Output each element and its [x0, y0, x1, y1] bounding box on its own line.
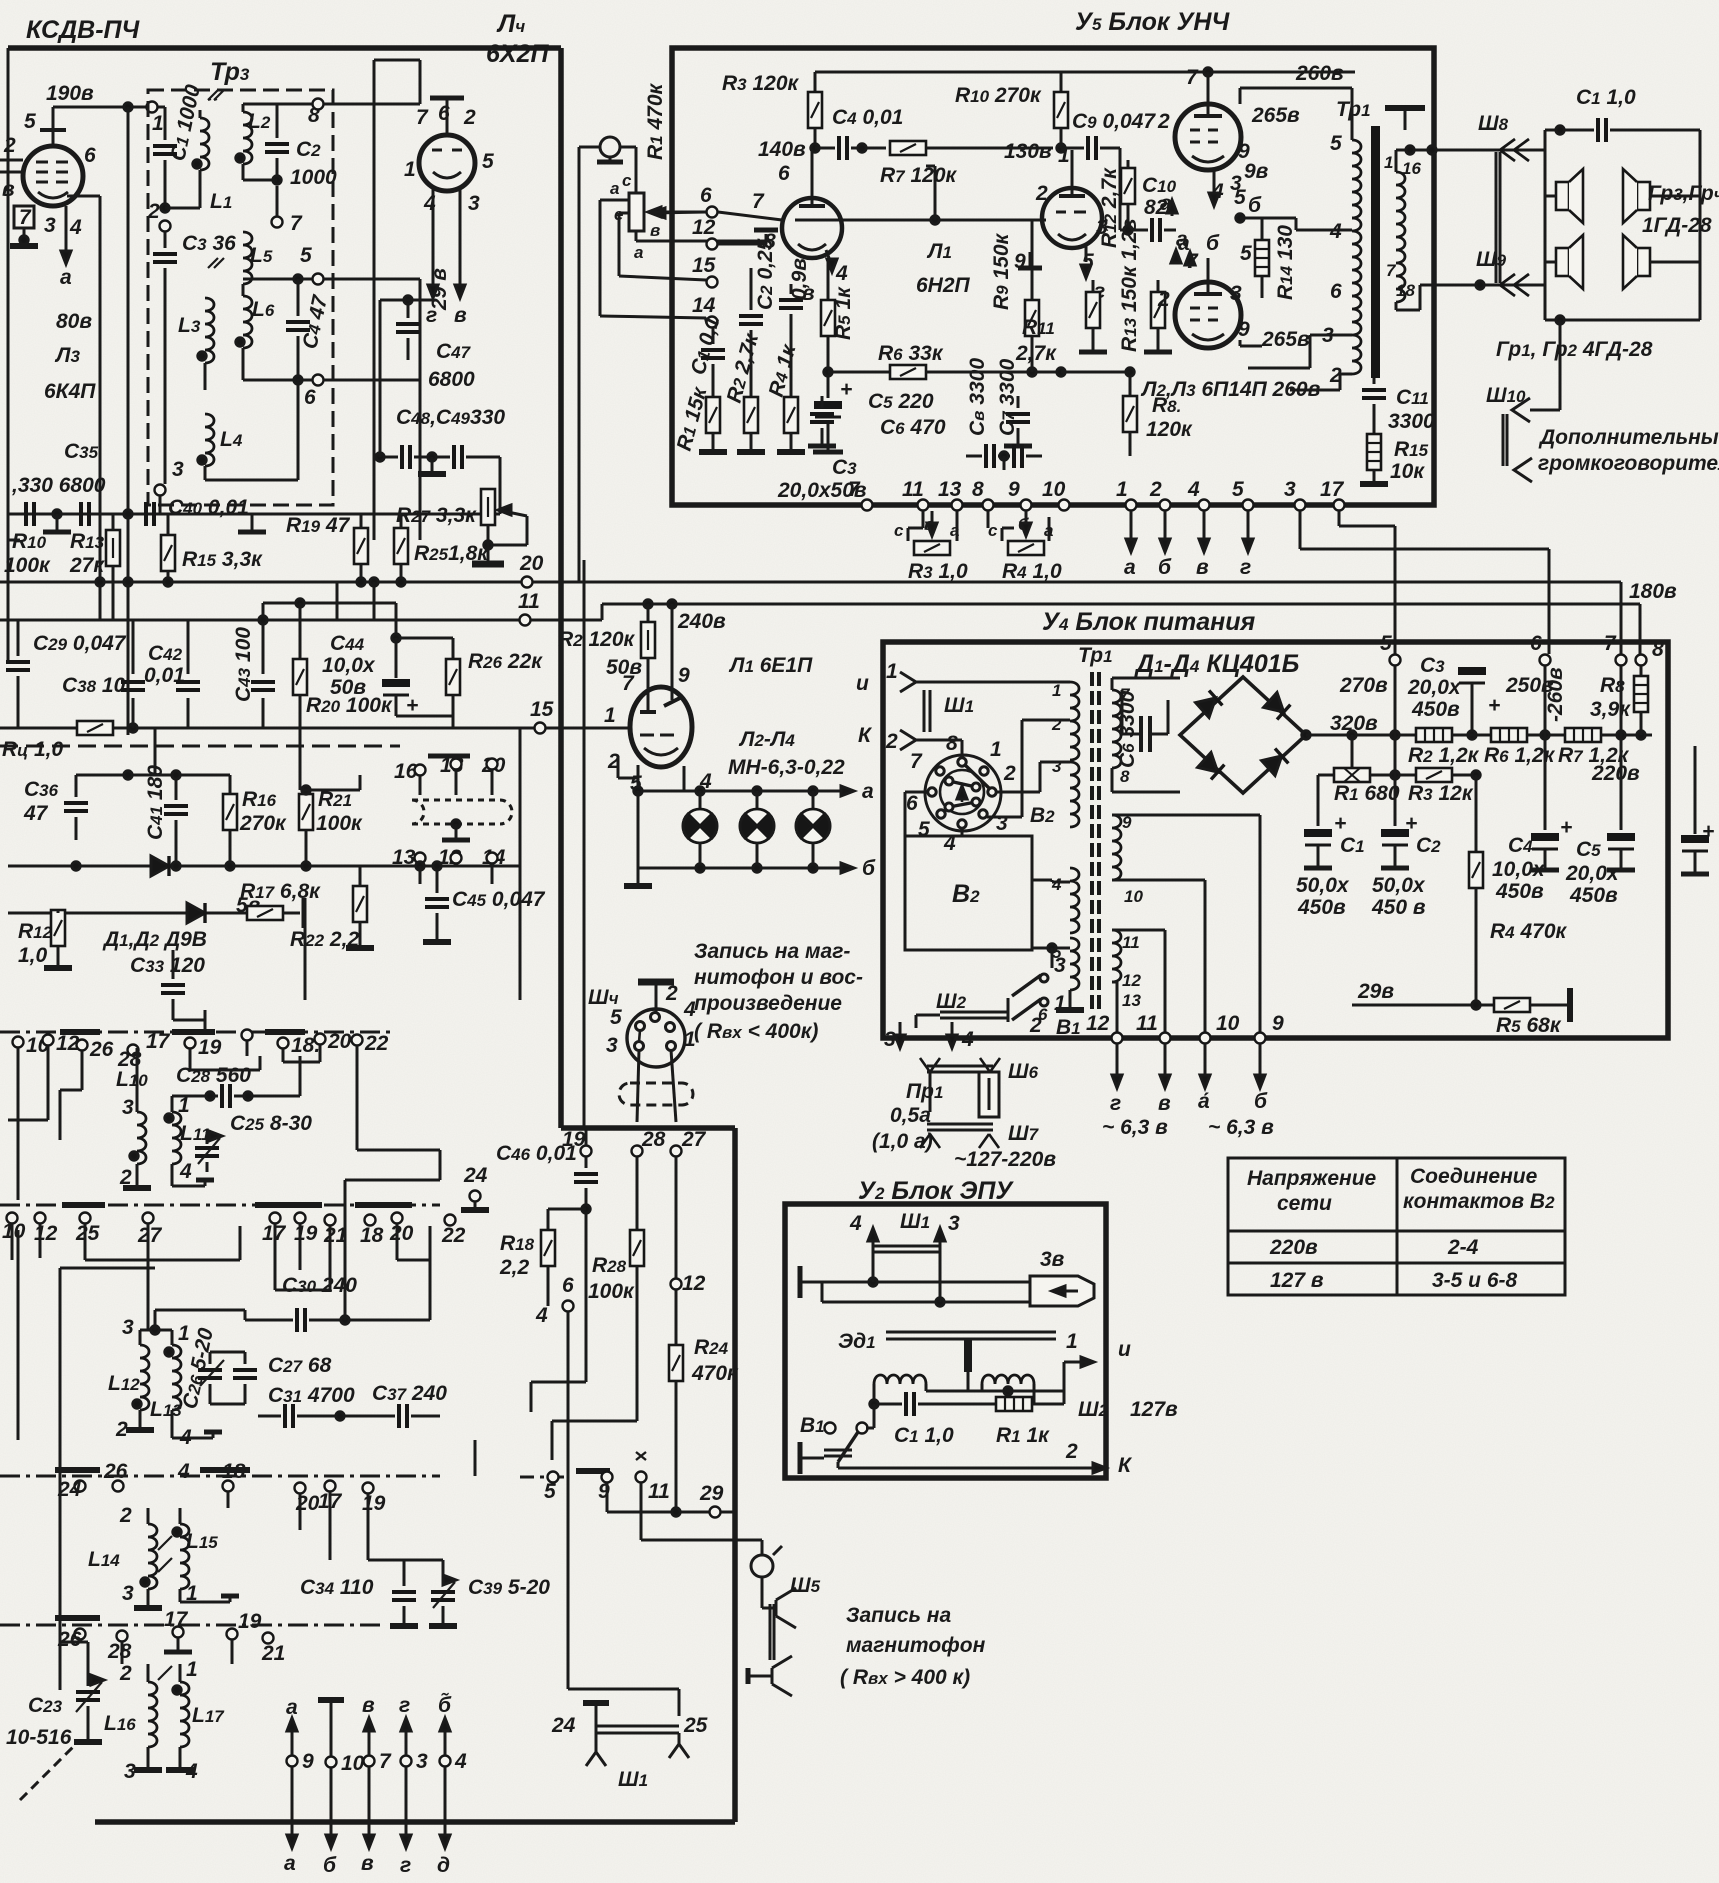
svg-text:+: +: [1334, 812, 1346, 835]
svg-text:R15: R15: [1394, 438, 1429, 461]
lamp 2: [756, 791, 759, 809]
svg-text:15: 15: [530, 698, 554, 721]
svg-text:1: 1: [1052, 681, 1061, 700]
svg-text:R13: R13: [70, 530, 105, 553]
svg-text:6: 6: [906, 792, 918, 815]
svg-text:R4 470к: R4 470к: [1490, 920, 1568, 943]
box У2: [785, 1204, 1106, 1478]
svg-text:( Rвх < 400к): ( Rвх < 400к): [694, 1020, 818, 1043]
lamp 3: [812, 791, 815, 809]
svg-text:С11: С11: [1396, 386, 1429, 409]
wire node 17 to node 5 of У4: [1338, 511, 1341, 526]
svg-text:5: 5: [1240, 242, 1252, 265]
svg-text:180в: 180в: [1629, 580, 1677, 603]
diode Д4: [1262, 749, 1289, 776]
wire 29 junction row: [606, 1483, 609, 1512]
svg-text:С34 110: С34 110: [300, 1576, 374, 1599]
contacts row 1: [13, 1037, 24, 1048]
diode Д2: [1264, 693, 1291, 720]
svg-text:265в: 265в: [1261, 328, 1310, 351]
svg-text:7: 7: [290, 212, 303, 235]
svg-text:20,0х: 20,0х: [1407, 676, 1462, 699]
long verticals in IF block: [127, 582, 130, 735]
svg-text:3: 3: [416, 1750, 428, 1773]
svg-text:5: 5: [482, 150, 494, 173]
svg-text:С29 0,047: С29 0,047: [33, 632, 127, 655]
dashed pointer to C23: [20, 1740, 80, 1800]
svg-text:а: а: [1124, 556, 1136, 579]
svg-text:50,0х: 50,0х: [1372, 874, 1426, 897]
svg-text:R1 680: R1 680: [1334, 782, 1400, 805]
svg-text:25: 25: [75, 1222, 100, 1245]
node 7: [1616, 655, 1627, 666]
svg-text:11: 11: [648, 1480, 670, 1503]
svg-text:2: 2: [885, 730, 898, 753]
svg-text:7: 7: [19, 206, 32, 229]
svg-text:R3 12к: R3 12к: [1408, 782, 1474, 805]
svg-text:15: 15: [692, 254, 716, 277]
svg-text:в: в: [362, 1694, 375, 1717]
svg-text:7: 7: [1186, 66, 1199, 89]
svg-text:100к: 100к: [588, 1280, 635, 1303]
г в а б arrows below У4: [1116, 1044, 1119, 1076]
svg-text:С6 3300: С6 3300: [1116, 690, 1139, 768]
svg-text:R1 470к: R1 470к: [644, 82, 667, 160]
svg-text:2: 2: [1035, 182, 1048, 205]
svg-text:5: 5: [1234, 186, 1246, 209]
svg-text:б: б: [1158, 556, 1172, 579]
svg-text:1: 1: [990, 738, 1002, 761]
svg-text:5: 5: [1052, 943, 1062, 962]
node 11: [520, 615, 531, 626]
svg-text:8: 8: [1120, 767, 1130, 786]
svg-text:а: а: [284, 1852, 296, 1875]
wafer row 5 dashed: [520, 1476, 568, 1479]
wire plate to Тр3: [52, 107, 55, 118]
node 130в: [1057, 144, 1065, 152]
svg-text:R10 270к: R10 270к: [955, 84, 1042, 107]
svg-text:5: 5: [610, 1006, 622, 1029]
svg-text:+: +: [1488, 694, 1500, 717]
svg-text:470к: 470к: [691, 1362, 739, 1385]
svg-text:5: 5: [544, 1480, 556, 1503]
svg-text:3300: 3300: [1388, 410, 1435, 433]
svg-text:а: а: [862, 780, 874, 803]
svg-text:С5: С5: [1576, 838, 1601, 861]
svg-text:1ГД-28: 1ГД-28: [1642, 214, 1712, 237]
resistor R15 10к: [1373, 404, 1376, 434]
resistor R5 68к: [1494, 998, 1530, 1012]
svg-text:б: б: [1254, 1090, 1268, 1113]
svg-text:3: 3: [172, 458, 184, 481]
svg-text:б: б: [323, 1854, 337, 1877]
svg-text:Ш5: Ш5: [790, 1574, 821, 1597]
wire speaker bus bottom: [1545, 319, 1700, 322]
svg-text:4: 4: [961, 1028, 974, 1051]
svg-text:+: +: [1702, 820, 1714, 843]
svg-text:Запись на маг-: Запись на маг-: [694, 940, 850, 963]
svg-text:7: 7: [416, 106, 429, 129]
svg-text:3: 3: [996, 812, 1008, 835]
svg-text:17: 17: [146, 1030, 171, 1053]
box У4: [883, 642, 1668, 1038]
coil L1: [200, 118, 209, 170]
coil L4: [205, 414, 214, 466]
svg-text:2,2: 2,2: [499, 1256, 530, 1279]
jack Ш5: [640, 1512, 643, 1540]
svg-text:2: 2: [463, 106, 476, 129]
svg-text:7: 7: [1604, 632, 1617, 655]
svg-text:б: б: [862, 857, 876, 880]
svg-text:5: 5: [1330, 132, 1342, 155]
svg-text:С36: С36: [24, 778, 59, 801]
svg-text:2: 2: [1157, 288, 1170, 311]
svg-text:3в: 3в: [1040, 1248, 1065, 1271]
node: [858, 144, 866, 152]
ground left: [798, 1266, 803, 1298]
switch B1 mains on-off: [1051, 948, 1054, 968]
svg-text:нитофон и вос-: нитофон и вос-: [694, 966, 863, 989]
capacitor C11 3300: [1373, 378, 1376, 384]
svg-text:~127-220в: ~127-220в: [954, 1148, 1056, 1171]
wafer row 3 dashed: [0, 1475, 440, 1478]
svg-text:2: 2: [1149, 478, 1162, 501]
svg-text:R4 1,0: R4 1,0: [1002, 560, 1062, 583]
svg-text:У4 Блок питания: У4 Блок питания: [1042, 608, 1256, 636]
svg-text:6: 6: [304, 386, 316, 409]
svg-text:С3 36: С3 36: [182, 232, 236, 255]
svg-text:6: 6: [1038, 1005, 1048, 1024]
svg-text:100к: 100к: [316, 812, 363, 835]
wire speaker bus left: [1544, 130, 1547, 320]
resistor R2 1,2к: [1416, 728, 1452, 742]
svg-text:19: 19: [362, 1492, 386, 1515]
svg-text:3,9к: 3,9к: [1590, 698, 1631, 721]
svg-text:7: 7: [1386, 261, 1397, 280]
svg-text:50в: 50в: [330, 676, 366, 699]
node: [1236, 214, 1244, 222]
contacts row 4: [55, 1615, 100, 1621]
node 5 270в: [1390, 655, 1401, 666]
wire to node 8 of У4: [1639, 604, 1642, 654]
svg-text:а: а: [60, 266, 72, 289]
svg-text:3: 3: [1322, 324, 1334, 347]
svg-text:10: 10: [341, 1752, 365, 1775]
svg-text:Напряжение: Напряжение: [1247, 1167, 1377, 1190]
svg-text:б: б: [1248, 194, 1262, 217]
svg-text:С27 68: С27 68: [268, 1354, 332, 1377]
svg-text:в: в: [1196, 556, 1209, 579]
svg-text:1: 1: [178, 1322, 190, 1345]
svg-text:1: 1: [1116, 478, 1128, 501]
svg-text:С9 0,047: С9 0,047: [1072, 110, 1156, 133]
svg-text:Ш1: Ш1: [900, 1210, 930, 1233]
svg-text:С46 0,01: С46 0,01: [496, 1142, 577, 1165]
svg-text:9: 9: [1008, 478, 1020, 501]
svg-text:Ш1: Ш1: [618, 1768, 648, 1791]
svg-text:1: 1: [604, 704, 616, 727]
svg-text:4: 4: [1187, 478, 1200, 501]
svg-text:2: 2: [1003, 762, 1016, 785]
svg-text:2,7к: 2,7к: [1015, 342, 1057, 365]
svg-text:1: 1: [1384, 153, 1393, 172]
svg-text:Дополнительный: Дополнительный: [1538, 426, 1719, 449]
svg-text:12: 12: [1086, 1012, 1110, 1035]
svg-text:450 в: 450 в: [1371, 896, 1426, 919]
svg-text:270к: 270к: [239, 812, 287, 835]
svg-text:6: 6: [1330, 280, 1342, 303]
svg-text:3: 3: [606, 1034, 618, 1057]
svg-text:47: 47: [23, 802, 49, 825]
svg-text:R1 1к: R1 1к: [996, 1424, 1050, 1447]
table frame: [1228, 1158, 1565, 1295]
switch B2 voltage selector: [925, 755, 1001, 831]
svg-text:С33 120: С33 120: [130, 954, 205, 977]
svg-text:2: 2: [1065, 1440, 1078, 1463]
svg-text:в: в: [454, 304, 467, 327]
svg-text:Гр3,Грч: Гр3,Грч: [1648, 182, 1719, 205]
svg-text:R9 150к: R9 150к: [990, 232, 1013, 310]
speaker Гр3: [1556, 169, 1583, 223]
svg-text:8: 8: [1652, 638, 1664, 661]
svg-text:С1: С1: [1340, 834, 1365, 857]
resistor R3 1,0 hum pot: [922, 511, 925, 528]
svg-text:16: 16: [1402, 159, 1421, 178]
svg-text:Д1,Д2 Д9В: Д1,Д2 Д9В: [102, 928, 207, 951]
svg-text:7: 7: [622, 672, 635, 695]
svg-text:Соединение: Соединение: [1410, 1165, 1538, 1188]
svg-text:Ш1: Ш1: [944, 694, 974, 717]
svg-text:5: 5: [24, 110, 36, 133]
wire rail 240в: [602, 603, 1640, 606]
svg-text:20: 20: [519, 552, 544, 575]
svg-text:R28: R28: [592, 1254, 627, 1277]
svg-text:В1: В1: [1056, 1016, 1081, 1039]
svg-text:22: 22: [364, 1032, 389, 1055]
svg-text:С35: С35: [64, 440, 99, 463]
wire to Ш9: [1396, 309, 1420, 312]
svg-text:С45 0,047: С45 0,047: [452, 888, 546, 911]
node 15: [535, 723, 546, 734]
svg-text:С28 560: С28 560: [176, 1064, 251, 1087]
svg-text:сети: сети: [1277, 1192, 1332, 1215]
node: [1204, 68, 1212, 76]
svg-text:265в: 265в: [1251, 104, 1300, 127]
svg-text:14: 14: [692, 294, 716, 317]
svg-text:12: 12: [1122, 971, 1141, 990]
diode Д3: [1198, 753, 1225, 780]
svg-text:450в: 450в: [1495, 880, 1544, 903]
svg-text:громкоговоритель: громкоговоритель: [1538, 452, 1719, 475]
svg-text:10: 10: [2, 1220, 26, 1243]
svg-text:R3 1,0: R3 1,0: [908, 560, 968, 583]
svg-text:С37 240: С37 240: [372, 1382, 447, 1405]
svg-text:220в: 220в: [1269, 1236, 1318, 1259]
svg-text:22: 22: [441, 1224, 466, 1247]
wafer row 2 dashed: [0, 1204, 440, 1207]
svg-text:10-516: 10-516: [6, 1726, 72, 1749]
svg-text:В2: В2: [1030, 804, 1055, 827]
shield oval: [619, 1083, 693, 1105]
svg-text:произведение: произведение: [694, 992, 842, 1015]
node 320в: [1302, 731, 1310, 739]
svg-text:20: 20: [389, 1222, 414, 1245]
svg-text:R16: R16: [242, 788, 277, 811]
svg-text:18: 18: [360, 1224, 384, 1247]
svg-text:5: 5: [300, 244, 312, 267]
transformer core: [1090, 672, 1094, 1014]
svg-text:с: с: [894, 521, 904, 540]
svg-text:R11: R11: [1022, 316, 1055, 339]
svg-text:5: 5: [918, 818, 930, 841]
jog wire from rail 11: [263, 602, 396, 605]
svg-text:11: 11: [518, 590, 540, 613]
svg-text:2: 2: [147, 200, 160, 223]
svg-text:1: 1: [152, 112, 164, 135]
svg-text:Гр1, Гр2 4ГД-28: Гр1, Гр2 4ГД-28: [1496, 338, 1653, 361]
svg-text:R2 120к: R2 120к: [558, 628, 636, 651]
capacitor C2 50,0х450в: [1394, 775, 1397, 826]
svg-text:11: 11: [1136, 1012, 1158, 1035]
svg-text:R19 47: R19 47: [286, 514, 351, 537]
svg-text:а: а: [634, 243, 643, 262]
node 20: [522, 577, 533, 588]
svg-text:18: 18: [1396, 281, 1415, 300]
svg-text:д: д: [437, 1854, 450, 1877]
contacts row 2: [7, 1213, 18, 1224]
resistor R7 1,2к: [1565, 728, 1601, 742]
svg-text:б̃: б̃: [438, 1693, 452, 1717]
wire: left border of IF block: [7, 48, 10, 660]
resistor R7 120к: [890, 141, 926, 155]
svg-text:13: 13: [938, 478, 962, 501]
svg-text:7: 7: [1186, 250, 1199, 273]
svg-text:2: 2: [1157, 110, 1170, 133]
svg-text:6: 6: [562, 1274, 574, 1297]
svg-text:29в: 29в: [1357, 980, 1394, 1003]
svg-text:4: 4: [1329, 220, 1342, 243]
svg-text:С2: С2: [1416, 834, 1441, 857]
node: [824, 368, 832, 376]
svg-text:1: 1: [186, 1658, 198, 1681]
wire: top border of left IF block: [8, 45, 561, 51]
svg-text:10: 10: [1216, 1012, 1240, 1035]
svg-text:18: 18: [222, 1460, 246, 1483]
svg-text:Ш9: Ш9: [1476, 248, 1507, 271]
diode Д2 Д9В: [187, 903, 205, 923]
trimmer arrows mid: [208, 258, 224, 268]
svg-text:7: 7: [379, 1750, 392, 1773]
switch B2 body: [905, 836, 1032, 950]
svg-text:Св 3300: Св 3300: [966, 358, 989, 436]
svg-text:2: 2: [3, 134, 16, 157]
speaker Гр4: [1623, 169, 1650, 223]
svg-text:26: 26: [89, 1038, 114, 1061]
coil L6: [243, 296, 252, 348]
svg-text:260в: 260в: [1295, 62, 1344, 85]
svg-text:L13: L13: [150, 1398, 182, 1421]
svg-text:с: с: [622, 171, 632, 190]
svg-text:R13 150к 1,2в: R13 150к 1,2в: [1118, 218, 1141, 352]
svg-text:г: г: [399, 1694, 410, 1717]
wire top B+ rail of У5: [815, 71, 1355, 74]
svg-text:11: 11: [1122, 933, 1140, 952]
svg-text:6Н2П: 6Н2П: [916, 274, 971, 297]
svg-text:L3: L3: [178, 314, 201, 337]
trimmer arrows on top: [208, 90, 224, 100]
svg-text:4: 4: [835, 262, 848, 285]
main B+ rail: [1306, 734, 1416, 737]
lamp 1: [699, 791, 702, 809]
svg-text:R24: R24: [694, 1336, 729, 1359]
vertical feed line: [583, 560, 586, 1128]
svg-text:7: 7: [848, 478, 861, 501]
wire rail 15: [0, 727, 534, 730]
secondary HV winding: [1112, 690, 1121, 768]
svg-text:Л1 6Е1П: Л1 6Е1П: [728, 654, 813, 677]
svg-text:МН-6,3-0,22: МН-6,3-0,22: [728, 756, 845, 779]
svg-text:R14 130: R14 130: [1274, 225, 1297, 300]
wires from Л4 region down: [419, 60, 422, 104]
svg-text:24: 24: [551, 1714, 576, 1737]
svg-text:17: 17: [1320, 478, 1345, 501]
svg-text:240в: 240в: [677, 610, 726, 633]
tube Л1 6Н2П triode a: [782, 198, 842, 258]
svg-text:~ 6,3 в: ~ 6,3 в: [1102, 1116, 1168, 1139]
svg-text:( Rвх > 400 к): ( Rвх > 400 к): [840, 1666, 970, 1689]
speaker Гр1: [1556, 235, 1583, 289]
svg-text:6: 6: [700, 184, 712, 207]
svg-text:магнитофон: магнитофон: [846, 1634, 986, 1657]
svg-text:R2 1,2к: R2 1,2к: [1408, 744, 1480, 767]
svg-text:2: 2: [1051, 715, 1062, 734]
wire б rail: [699, 843, 702, 868]
tube Л2 6П14П upper: [1175, 104, 1241, 170]
coil L5: [243, 232, 252, 284]
svg-text:10: 10: [1042, 478, 1066, 501]
svg-text:11: 11: [902, 478, 924, 501]
svg-text:L1: L1: [210, 190, 232, 213]
coil L2: [243, 112, 252, 164]
svg-text:3-5 и 6-8: 3-5 и 6-8: [1432, 1269, 1518, 1292]
svg-text:450в: 450в: [1411, 698, 1460, 721]
wires B2 to transformer: [996, 791, 1040, 794]
svg-text:L12: L12: [108, 1372, 140, 1395]
svg-text:С4 0,01: С4 0,01: [832, 106, 903, 129]
svg-text:12: 12: [692, 216, 716, 239]
svg-text:4: 4: [849, 1212, 862, 1235]
svg-text:130в: 130в: [1004, 140, 1052, 163]
svg-text:г: г: [400, 1854, 411, 1877]
svg-text:С25 8-30: С25 8-30: [230, 1112, 312, 1135]
svg-text:Пр1: Пр1: [906, 1080, 943, 1103]
svg-text:1: 1: [886, 660, 898, 683]
wire: thick jog of IF block border: [561, 1125, 735, 1131]
svg-text:50,0х: 50,0х: [1296, 874, 1350, 897]
svg-text:КСДВ-ПЧ: КСДВ-ПЧ: [26, 16, 141, 44]
svg-text:R8: R8: [1600, 674, 1625, 697]
svg-text:4: 4: [69, 216, 82, 239]
svg-text:г: г: [1240, 556, 1251, 579]
svg-text:С5 220: С5 220: [868, 390, 934, 413]
svg-text:С3: С3: [832, 456, 857, 479]
svg-text:3: 3: [1284, 478, 1296, 501]
svg-text:С6 470: С6 470: [880, 416, 946, 439]
svg-text:1000: 1000: [290, 166, 337, 189]
svg-text:С42: С42: [148, 642, 183, 665]
wafer row 4 dashed: [0, 1624, 380, 1627]
connector Ш1 to record player: [568, 1688, 679, 1691]
